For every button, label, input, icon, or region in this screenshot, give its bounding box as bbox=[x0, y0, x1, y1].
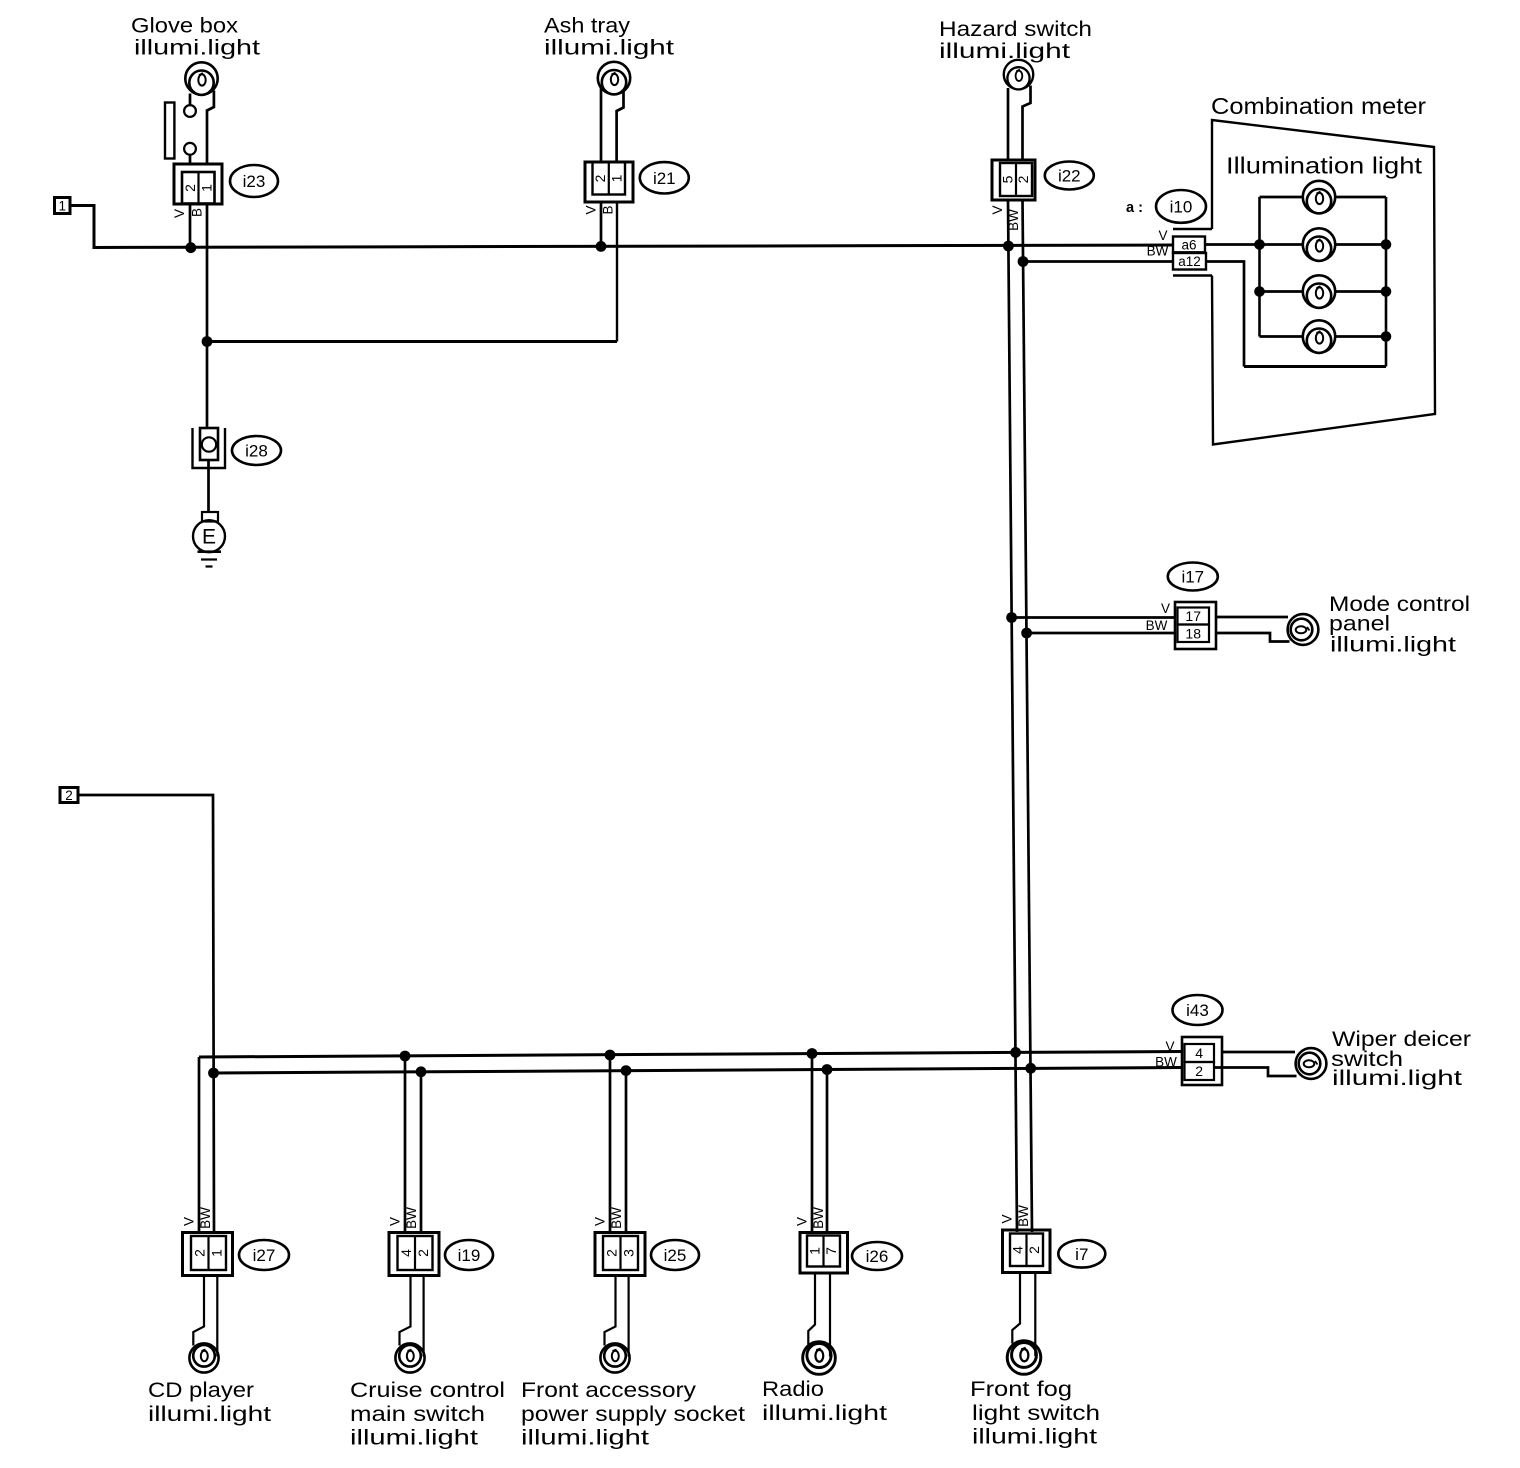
svg-text:illumi.light: illumi.light bbox=[762, 1402, 887, 1425]
svg-text:i26: i26 bbox=[866, 1247, 889, 1266]
svg-text:illumi.light: illumi.light bbox=[544, 37, 674, 60]
svg-text:E: E bbox=[202, 526, 216, 549]
svg-text:4: 4 bbox=[1010, 1246, 1026, 1254]
svg-text:V: V bbox=[182, 1217, 197, 1226]
svg-text:power supply socket: power supply socket bbox=[521, 1403, 745, 1426]
svg-text:i25: i25 bbox=[664, 1246, 687, 1265]
svg-text:BW: BW bbox=[1006, 209, 1021, 231]
svg-text:V: V bbox=[593, 1217, 608, 1226]
svg-text:2: 2 bbox=[192, 1249, 208, 1257]
svg-text:i43: i43 bbox=[1186, 1001, 1209, 1020]
svg-text:V: V bbox=[584, 205, 599, 214]
svg-text:a6: a6 bbox=[1181, 237, 1196, 252]
svg-text:BW: BW bbox=[1155, 1055, 1177, 1070]
svg-text:illumi.light: illumi.light bbox=[1330, 634, 1456, 657]
svg-text:V: V bbox=[1165, 1039, 1174, 1054]
svg-text:a12: a12 bbox=[1178, 254, 1201, 269]
svg-text:illumi.light: illumi.light bbox=[134, 37, 260, 60]
svg-text:BW: BW bbox=[1147, 244, 1169, 259]
svg-text:illumi.light: illumi.light bbox=[1332, 1067, 1462, 1090]
svg-text:i27: i27 bbox=[253, 1246, 276, 1265]
svg-text:7: 7 bbox=[823, 1247, 839, 1255]
svg-text:Front fog: Front fog bbox=[970, 1378, 1072, 1401]
svg-text:i22: i22 bbox=[1058, 167, 1081, 186]
svg-text:CD player: CD player bbox=[148, 1379, 254, 1402]
svg-text:18: 18 bbox=[1185, 626, 1201, 642]
svg-text:V: V bbox=[1000, 1214, 1015, 1223]
svg-text:2: 2 bbox=[592, 174, 608, 182]
svg-text:2: 2 bbox=[604, 1249, 620, 1257]
svg-text:V: V bbox=[1158, 228, 1167, 243]
svg-text:1: 1 bbox=[58, 199, 66, 214]
svg-text:Cruise control: Cruise control bbox=[350, 1379, 505, 1402]
svg-text:Combination meter: Combination meter bbox=[1211, 93, 1426, 119]
svg-text:V: V bbox=[388, 1217, 403, 1226]
svg-text:Ash tray: Ash tray bbox=[544, 15, 631, 38]
svg-text:i7: i7 bbox=[1075, 1245, 1088, 1264]
svg-text:4: 4 bbox=[398, 1249, 414, 1257]
svg-text:5: 5 bbox=[1000, 175, 1016, 183]
svg-text:Illumination light: Illumination light bbox=[1226, 153, 1423, 179]
svg-text:2: 2 bbox=[1195, 1063, 1203, 1079]
svg-text:B: B bbox=[601, 205, 616, 214]
svg-text:1: 1 bbox=[807, 1247, 823, 1255]
svg-text:a :: a : bbox=[1126, 199, 1143, 216]
svg-text:BW: BW bbox=[1146, 618, 1168, 633]
svg-text:main switch: main switch bbox=[350, 1403, 485, 1426]
svg-text:BW: BW bbox=[1016, 1205, 1031, 1227]
svg-text:i21: i21 bbox=[653, 169, 676, 188]
svg-text:panel: panel bbox=[1329, 613, 1390, 636]
svg-text:i28: i28 bbox=[245, 442, 268, 461]
svg-text:Hazard switch: Hazard switch bbox=[939, 18, 1092, 41]
svg-text:illumi.light: illumi.light bbox=[350, 1427, 478, 1450]
svg-text:2: 2 bbox=[415, 1249, 431, 1257]
svg-text:V: V bbox=[172, 209, 187, 218]
svg-text:illumi.light: illumi.light bbox=[148, 1403, 271, 1426]
svg-text:1: 1 bbox=[608, 174, 624, 182]
svg-text:2: 2 bbox=[1026, 1246, 1042, 1254]
svg-text:illumi.light: illumi.light bbox=[972, 1426, 1097, 1449]
svg-text:i19: i19 bbox=[458, 1246, 481, 1265]
svg-text:V: V bbox=[1161, 601, 1170, 616]
svg-text:i23: i23 bbox=[243, 172, 266, 191]
svg-text:1: 1 bbox=[209, 1249, 225, 1257]
svg-text:BW: BW bbox=[811, 1207, 826, 1229]
svg-text:1: 1 bbox=[198, 184, 214, 192]
svg-text:illumi.light: illumi.light bbox=[939, 40, 1070, 63]
svg-text:light switch: light switch bbox=[972, 1402, 1100, 1425]
svg-text:i17: i17 bbox=[1181, 568, 1204, 587]
svg-text:Glove box: Glove box bbox=[131, 15, 239, 38]
svg-text:2: 2 bbox=[65, 788, 73, 803]
svg-text:i10: i10 bbox=[1170, 197, 1193, 216]
svg-text:3: 3 bbox=[621, 1249, 637, 1257]
svg-text:BW: BW bbox=[404, 1207, 419, 1229]
svg-text:2: 2 bbox=[1015, 175, 1031, 183]
svg-text:BW: BW bbox=[609, 1207, 624, 1229]
svg-text:illumi.light: illumi.light bbox=[521, 1427, 649, 1450]
svg-text:17: 17 bbox=[1185, 608, 1201, 624]
svg-text:V: V bbox=[990, 205, 1005, 214]
svg-text:2: 2 bbox=[182, 184, 198, 192]
svg-text:Front accessory: Front accessory bbox=[521, 1379, 697, 1402]
svg-text:V: V bbox=[795, 1217, 810, 1226]
svg-text:BW: BW bbox=[198, 1207, 213, 1229]
svg-text:4: 4 bbox=[1195, 1045, 1203, 1061]
svg-text:B: B bbox=[190, 208, 205, 217]
svg-text:Radio: Radio bbox=[762, 1378, 824, 1401]
